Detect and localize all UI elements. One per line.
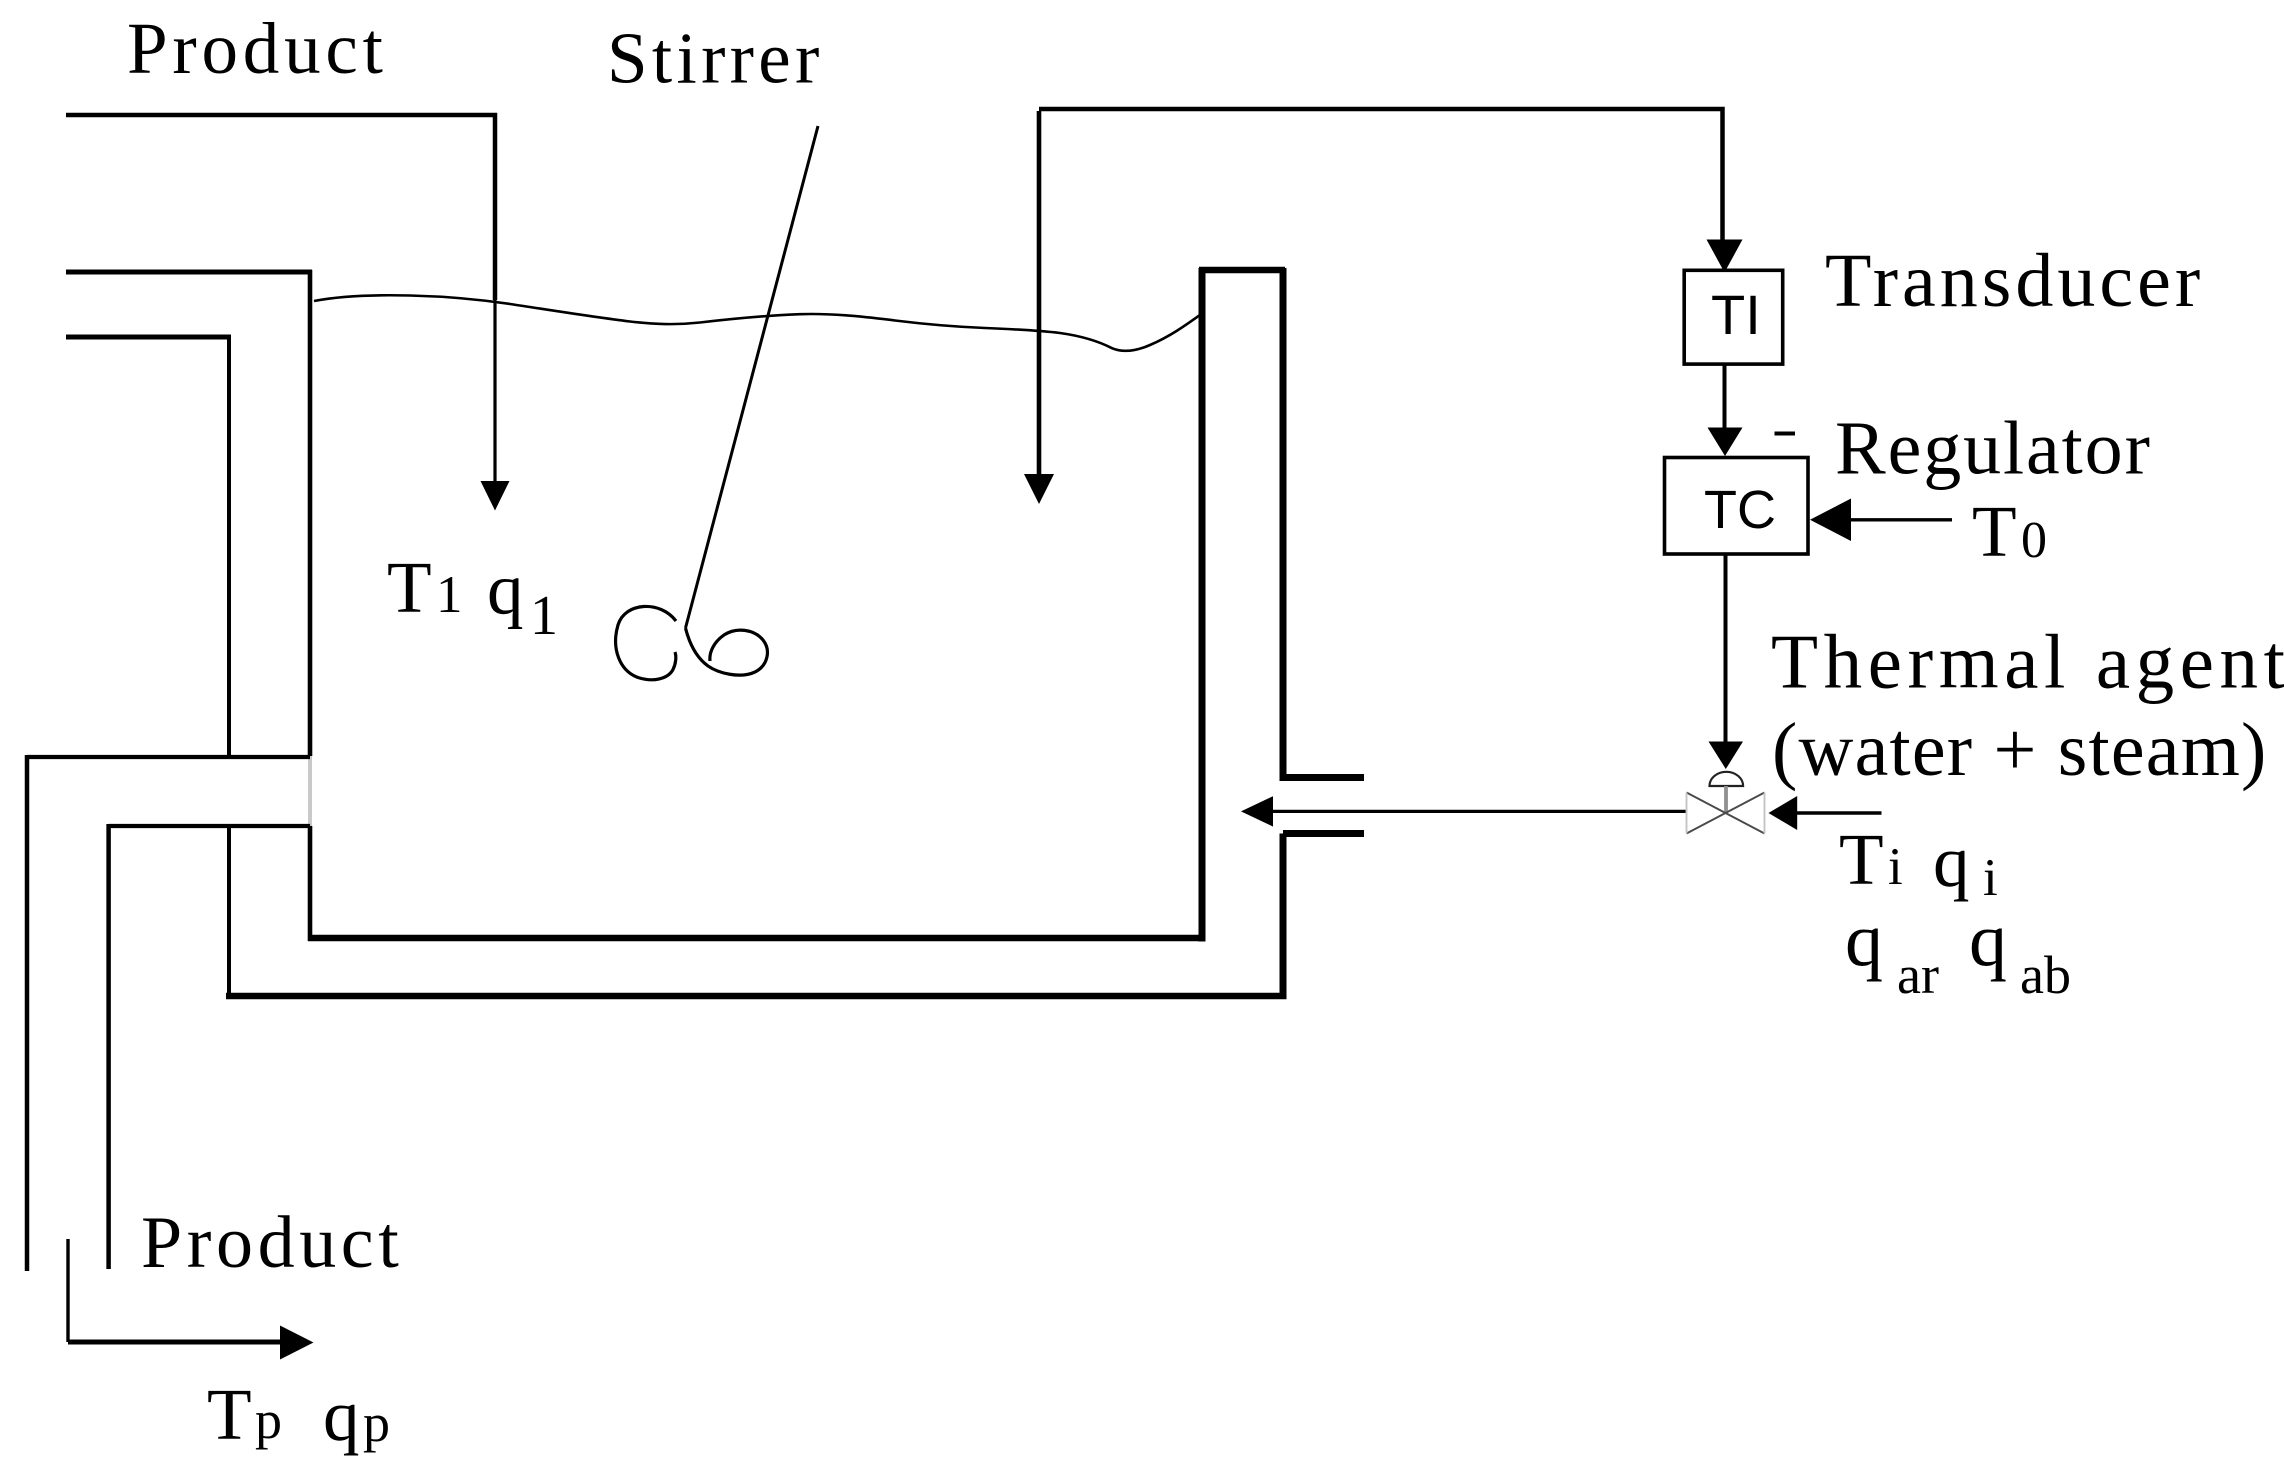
svg-text:ab: ab (2020, 945, 2071, 1005)
svg-text:Stirrer: Stirrer (607, 18, 824, 99)
svg-text:q: q (323, 1375, 360, 1456)
svg-text:Regulator: Regulator (1835, 407, 2152, 491)
svg-text:T: T (1839, 819, 1884, 900)
svg-text:p: p (255, 1390, 282, 1450)
svg-text:Product: Product (141, 1202, 403, 1284)
svg-text:p: p (363, 1393, 390, 1453)
svg-text:q: q (1845, 898, 1883, 982)
svg-text:TI: TI (1711, 283, 1761, 346)
svg-text:0: 0 (2021, 512, 2047, 569)
svg-text:1: 1 (436, 566, 463, 624)
svg-text:Thermal agent: Thermal agent (1771, 619, 2284, 705)
svg-text:T: T (207, 1374, 252, 1455)
svg-text:1: 1 (530, 585, 558, 647)
svg-text:q: q (487, 549, 524, 630)
svg-text:ar: ar (1897, 945, 1939, 1005)
svg-text:i: i (1888, 838, 1903, 896)
svg-text:T: T (387, 547, 432, 628)
svg-text:TC: TC (1704, 480, 1776, 540)
svg-text:q: q (1933, 821, 1970, 902)
svg-text:(water + steam): (water + steam) (1772, 708, 2268, 792)
svg-text:Product: Product (127, 8, 388, 89)
svg-text:Transducer: Transducer (1825, 239, 2204, 323)
svg-text:q: q (1969, 898, 2007, 982)
svg-text:T: T (1972, 491, 2017, 572)
